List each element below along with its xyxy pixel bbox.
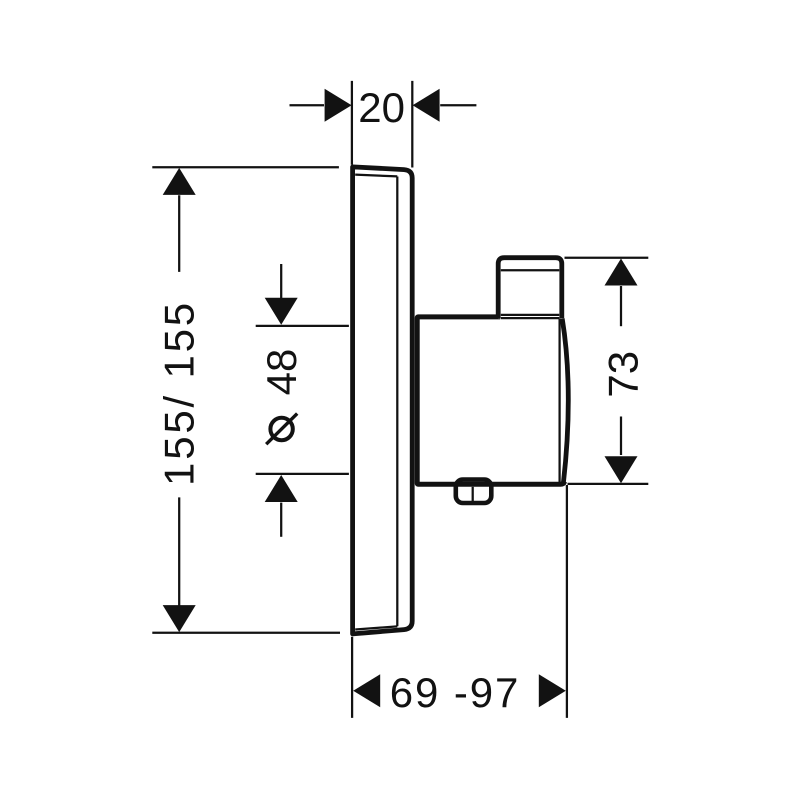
- dim 73: bottom extension line: [568, 483, 649, 485]
- svg-text:48: 48: [258, 349, 305, 396]
- dim Ø48: upper tail: [280, 264, 282, 298]
- svg-text:20: 20: [358, 84, 405, 131]
- cap inner line: [501, 269, 560, 271]
- svg-text:69 -97: 69 -97: [390, 669, 521, 716]
- dim 20: left tail: [290, 104, 325, 106]
- dim 73: upper line segment: [620, 286, 622, 326]
- dim Ø48: diameter symbol slash: [266, 414, 297, 445]
- plate face line vertical: [396, 177, 398, 627]
- dim Ø48: upper extension line: [256, 325, 349, 327]
- svg-text:155/ 155: 155/ 155: [156, 300, 203, 486]
- dim 69-97: left extension line: [351, 637, 353, 718]
- dim 155/155: bottom extension line: [152, 632, 340, 634]
- dim Ø48: lower arrow: [265, 475, 298, 502]
- escutcheon plate outline: [353, 167, 413, 634]
- dim 20: right arrow: [413, 89, 440, 122]
- dim Ø48: upper arrow: [265, 298, 298, 325]
- dim 155/155: lower line segment: [178, 497, 180, 605]
- body right edge thin: [558, 319, 560, 483]
- valve body outline: [417, 317, 564, 484]
- dim 73: top arrow: [605, 259, 638, 286]
- dim 69-97: left arrow: [353, 674, 380, 707]
- cap bottom line 2: [501, 317, 560, 319]
- notch divider: [472, 487, 474, 502]
- plate face line bottom: [355, 626, 397, 629]
- dim 69-97: right extension line: [566, 485, 568, 718]
- dim 20: right extension line: [411, 81, 413, 168]
- cap bottom line 1: [501, 314, 560, 316]
- dim 155/155: top extension line: [152, 166, 339, 168]
- dim 20: right tail: [440, 104, 476, 106]
- check-valve notch below body: [456, 480, 492, 503]
- dim 155/155: top arrow: [163, 168, 196, 195]
- dim 73: bottom arrow: [605, 456, 638, 483]
- plate face line top: [355, 175, 397, 177]
- dim 73: lower line segment: [620, 417, 622, 456]
- svg-text:73: 73: [599, 351, 646, 398]
- dim 155/155: upper line segment: [178, 195, 180, 272]
- dim 73: top extension line: [565, 257, 649, 259]
- dim Ø48: diameter symbol circle: [270, 418, 292, 440]
- cartridge cap on top of body: [498, 258, 562, 319]
- handle front arc: [562, 319, 568, 483]
- dim 155/155: bottom arrow: [163, 605, 196, 632]
- dim Ø48: lower tail: [280, 503, 282, 537]
- dim 20: left arrow: [325, 89, 352, 122]
- dim 69-97: right arrow: [539, 674, 566, 707]
- dim Ø48: lower extension line: [256, 473, 349, 475]
- dim 20: left extension line: [351, 81, 353, 165]
